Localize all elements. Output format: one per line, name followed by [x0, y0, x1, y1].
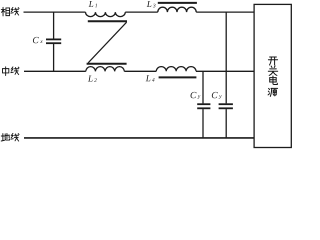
text 线 (ground label char 2) [11, 133, 19, 141]
text 线 (neutral label char 2) [11, 67, 19, 75]
text 开 (box label char 1) [268, 57, 277, 65]
wire: ground line [24, 137, 254, 139]
text 中 (neutral label char 1) [2, 67, 8, 76]
label Cy2 [212, 92, 222, 99]
wire: Cx bottom lead [53, 44, 55, 71]
text 关 (box label char 2) [268, 66, 277, 76]
text 线 (phase label char 2) [11, 7, 19, 15]
wire: Cy1 top lead (from neutral) [202, 71, 204, 103]
box: switching power supply outline [254, 4, 291, 147]
wire: Cx top lead [53, 12, 55, 38]
label L3 [147, 1, 156, 7]
core bar of L3 [158, 2, 197, 4]
wire: neutral line right segment to box [196, 70, 254, 72]
core bar of L2 [87, 63, 127, 65]
wire: Cy1 bottom lead [202, 109, 204, 138]
inductor L1 [86, 12, 126, 17]
wire: phase line right segment to box [196, 11, 254, 13]
label L1 [89, 1, 97, 7]
wire: neutral line left segment [24, 70, 86, 72]
capacitor Cy2 [219, 104, 233, 108]
wire: phase line between L1 and L3 [125, 11, 158, 13]
inductor L2 [86, 67, 125, 72]
text 地 (ground label char 1) [1, 133, 9, 141]
label Cy1 [191, 92, 201, 99]
label Cx [33, 37, 43, 43]
label L4 [146, 75, 155, 81]
wire: neutral line between L2 and L4 [124, 70, 156, 72]
CJK labels drawn as strokes [1, 7, 278, 141]
wire: Cy2 bottom lead [225, 109, 227, 138]
inductor L3 [158, 7, 196, 12]
text 源 (box label char 4) [268, 88, 278, 96]
coupling diagonal L1-L2 [88, 22, 126, 63]
capacitor Cy1 [197, 104, 210, 108]
wire: Cy2 top lead (from phase, crossing neutral) [225, 12, 227, 103]
inductor L4 [156, 67, 196, 72]
capacitor Cx [46, 39, 61, 43]
text 相 (phase label char 1) [1, 7, 9, 16]
core bar of L4 [159, 76, 197, 78]
text 电 (box label char 3) [270, 76, 278, 85]
label L2 [88, 76, 97, 82]
core bar of L1 [88, 20, 127, 22]
wire: phase line left segment [24, 11, 86, 13]
